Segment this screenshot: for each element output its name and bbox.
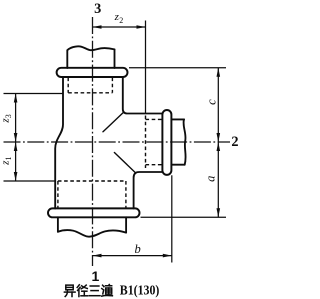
svg-text:b: b bbox=[135, 242, 141, 256]
svg-text:2: 2 bbox=[119, 16, 123, 25]
svg-text:3: 3 bbox=[4, 114, 13, 118]
svg-text:1: 1 bbox=[4, 157, 13, 161]
svg-text:3: 3 bbox=[94, 1, 101, 17]
svg-text:1: 1 bbox=[92, 268, 100, 284]
svg-text:B1(130): B1(130) bbox=[120, 283, 160, 298]
svg-text:2: 2 bbox=[231, 134, 238, 150]
svg-text:c: c bbox=[204, 99, 218, 105]
svg-text:a: a bbox=[203, 176, 217, 182]
